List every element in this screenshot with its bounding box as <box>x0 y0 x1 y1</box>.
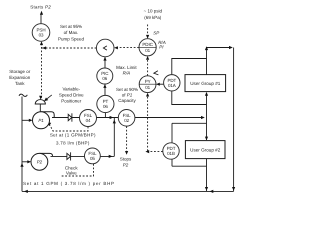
tank: storage or expansion tank symbol <box>19 94 27 96</box>
arrow: user group 2 return down onto bottom header <box>205 187 208 191</box>
svg-text:P2: P2 <box>37 160 43 165</box>
arrow: right drop down onto bottom header <box>232 187 235 191</box>
pump P2 <box>31 153 53 170</box>
instrument FSL-04 <box>80 110 97 127</box>
arrow: up into PSH-03 bottom <box>40 41 43 45</box>
wire: user group 1 return riser and top run <box>207 48 232 75</box>
svg-text:04: 04 <box>86 118 91 123</box>
svg-text:06: 06 <box>102 76 107 81</box>
wire: PDT-01B signal dashed to corner <box>147 151 163 153</box>
wire: PDT-01B lower tap <box>172 165 207 167</box>
svg-text:Max. Limit: Max. Limit <box>116 65 137 70</box>
svg-text:Speed Drive: Speed Drive <box>59 93 84 98</box>
svg-text:PI: PI <box>159 45 164 50</box>
arrow: up flow arrow on left riser below P2 branch <box>20 163 23 167</box>
wire: supply riser x=206.5 between header and user groups <box>206 94 208 141</box>
svg-text:Set at (1 GPM/BHP): Set at (1 GPM/BHP) <box>50 133 96 138</box>
instrument PY-01 <box>139 71 158 93</box>
wire: PDT-01A lower tap <box>172 91 207 105</box>
wire: user group 2 return drop <box>206 159 208 192</box>
svg-text:P2: P2 <box>123 163 129 168</box>
block: User Group #1 <box>185 75 226 92</box>
svg-text:of Max.: of Max. <box>64 30 79 35</box>
wire: right return drop x=233.6 <box>233 48 235 192</box>
svg-text:Variable-: Variable- <box>62 86 80 91</box>
wire: FSL-02 dashed drop (stops P2) <box>126 126 128 151</box>
arrow: FSL-04 leader arrow onto P1 <box>47 122 51 126</box>
svg-text:PDIC: PDIC <box>142 42 153 47</box>
wire: PDT-01B sensing vertical <box>171 123 173 166</box>
svg-text:01B: 01B <box>167 151 175 156</box>
instrument PIC-06 <box>97 68 113 84</box>
label: Variable-Speed Drive Positioner <box>59 86 84 103</box>
svg-text:PY: PY <box>145 79 151 84</box>
arrow: up arrow at user group 1 return top corner <box>205 46 208 50</box>
svg-text:User Group #2: User Group #2 <box>190 148 221 153</box>
svg-text:~ 10 psid: ~ 10 psid <box>144 9 163 14</box>
arrow: up into user group 1 bottom <box>205 92 208 96</box>
svg-text:05: 05 <box>90 156 95 161</box>
wire: P2 discharge pipe <box>51 155 115 157</box>
wire: setpoint dashed drop to PDIC-01 <box>147 25 149 38</box>
wire: PIC-06 to low select <box>104 57 106 68</box>
svg-text:Tank: Tank <box>15 81 25 86</box>
svg-text:of P1: of P1 <box>122 92 133 97</box>
wire: PDT-01A upper tap <box>172 59 207 75</box>
wire: P2 suction branch <box>22 161 28 163</box>
instrument PDT-01B <box>163 143 179 159</box>
wire: PDIC-01 output dashed to low select <box>116 47 140 49</box>
wire: PDT-01B upper tap <box>172 122 207 124</box>
svg-text:01: 01 <box>145 85 150 90</box>
arrow: header right arrow at supply riser <box>201 116 205 119</box>
arrow: right arrow at top right corner <box>229 46 233 49</box>
svg-text:3.78 l/m (BHP): 3.78 l/m (BHP) <box>56 141 90 146</box>
wire: dashed vertical to PSH-03 and VSD positioner <box>41 44 43 99</box>
instrument PDT-01A <box>164 75 180 91</box>
label: Max. Limit R/A beside PIC-06 <box>116 65 137 76</box>
svg-text:Pump Speed: Pump Speed <box>58 36 85 41</box>
svg-text:Set at 90%: Set at 90% <box>116 87 138 92</box>
arrow: PDT-01B signal up into PY-01 bottom <box>146 93 149 97</box>
instrument PT-06 <box>97 95 114 112</box>
svg-text:Valve: Valve <box>66 171 77 176</box>
arrow: down into user group 2 top <box>205 137 208 141</box>
label: R/A PI beside PDIC-01 <box>158 40 166 50</box>
instrument PSH-03 <box>32 24 50 42</box>
arrow: stops P2 dashed down arrow <box>125 151 128 155</box>
label: Stops P2 <box>120 157 132 168</box>
svg-text:Positioner: Positioner <box>61 99 82 104</box>
arrow: PDT-01B dashed left arrow <box>145 150 149 153</box>
svg-text:Storage or: Storage or <box>9 69 31 74</box>
svg-text:Starts P2: Starts P2 <box>30 4 51 9</box>
svg-text:Expansion: Expansion <box>9 75 31 80</box>
label: Set at 90% of P1 Capacity <box>116 87 138 103</box>
block: User Group #2 <box>185 141 225 159</box>
wire: PT-06 to PIC-06 <box>104 84 106 95</box>
svg-text:03: 03 <box>39 33 44 38</box>
arrow: left arrow on bottom header right of UG2 drop <box>210 190 214 193</box>
label: Check Valve <box>65 166 79 176</box>
arrow: annotation leader onto VSD dome <box>44 95 52 101</box>
label: ~10 psid (69 kPa) setpoint <box>144 9 163 20</box>
label: Storage or Expansion Tank <box>9 69 31 86</box>
arrow: suction into P2 <box>27 160 31 163</box>
instrument PDIC-01 <box>139 39 156 56</box>
wire: P1 discharge header to user groups <box>52 117 201 119</box>
arrow: suction into P1 <box>29 119 33 122</box>
arrow: setpoint down into PDIC-01 <box>146 35 149 39</box>
label: Set at 95% of Max. Pump Speed <box>58 24 85 41</box>
arrow: into low select from PDIC-01 <box>114 46 118 49</box>
arrow: flow right on header at P2 junction <box>110 116 114 119</box>
arrow: PT-06 up into PIC-06 <box>103 84 106 88</box>
arrow: left arrow on bottom header near left corner <box>24 190 28 193</box>
arrow: dashed control down onto VSD dome <box>39 96 42 100</box>
svg-text:(69 kPa): (69 kPa) <box>144 15 162 20</box>
wire: P2 discharge riser up to header <box>113 118 115 157</box>
svg-text:06: 06 <box>103 104 108 109</box>
wire: PY-01 output dashed up to PDIC-01 <box>147 58 149 76</box>
instrument FSL-05 <box>85 148 101 164</box>
wire: FSL-04 dashed annotation leader <box>50 125 89 132</box>
arrow: left arrow at T junction toward PSH/VSD line <box>42 46 46 49</box>
label: Set at (1 GPM/BHP) 3.78 l/m (BHP) <box>50 133 96 146</box>
svg-text:Set at 1 GPM ( 3.78 l/m ) per: Set at 1 GPM ( 3.78 l/m ) per BHP <box>23 181 115 186</box>
wire: low select output dashed to left <box>42 47 97 49</box>
valve: check valve at P2 discharge <box>67 152 71 160</box>
svg-text:R/A: R/A <box>123 71 131 76</box>
instrument FSL-02 <box>118 110 135 127</box>
svg-text:User Group #1: User Group #1 <box>190 81 221 86</box>
arrow: PY-01 output up into PDIC-01 <box>146 56 149 60</box>
svg-text:01: 01 <box>145 48 150 53</box>
svg-text:01A: 01A <box>168 83 176 88</box>
svg-text:02: 02 <box>124 118 129 123</box>
wire: PT-06 tap to header <box>104 113 106 118</box>
arrow: P2 discharge right arrow before corner <box>109 155 113 158</box>
wire: FSL-05 dashed annotation leader <box>61 164 94 176</box>
instrument: low signal selector circle <box>96 39 114 57</box>
arrow: PIC-06 up into low select <box>103 57 106 61</box>
arrow: PDT-01A into PY-01 right side <box>156 83 164 86</box>
svg-text:Set at 95%: Set at 95% <box>60 24 82 29</box>
pump P1 <box>33 112 55 129</box>
arrow: P2 riser up arrow below header <box>113 120 116 124</box>
valve: check valve at P1 discharge <box>68 113 72 121</box>
svg-text:SP: SP <box>153 31 159 36</box>
wire: P1 suction branch <box>22 119 30 121</box>
wire: PDT-01B signal dashed up to PY-01 <box>147 95 149 152</box>
wire: PSH-03 to starts-P2 arrow <box>40 14 42 24</box>
actuator: VSD positioner dome on P1 <box>35 100 45 112</box>
arrow: starts P2 up arrow above PSH-03 <box>40 11 43 15</box>
svg-text:Capacity: Capacity <box>118 98 136 103</box>
wire: bottom return header <box>22 190 234 192</box>
wire: tank riser / left return riser x=22 <box>21 97 23 192</box>
svg-text:P1: P1 <box>38 118 44 123</box>
svg-text:Stops: Stops <box>120 157 132 162</box>
